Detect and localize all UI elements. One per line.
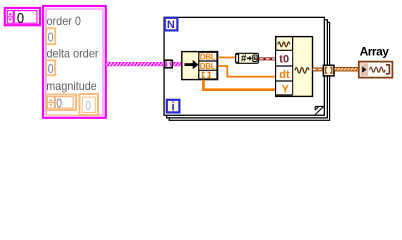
output waveform glyph bbox=[295, 68, 309, 73]
bracket glyph bbox=[236, 54, 238, 62]
cluster constant frame bbox=[43, 6, 106, 118]
svg-text:N: N bbox=[167, 19, 175, 31]
waveform glyph bbox=[370, 67, 386, 72]
wire: time stamp (dark red dashed) bbox=[258, 57, 276, 60]
svg-text:#: # bbox=[241, 53, 247, 64]
array of waveform indicator terminal bbox=[359, 62, 393, 78]
magnitude array element box (dimmed) bbox=[80, 94, 99, 115]
increment-decrement buttons bbox=[7, 11, 13, 24]
svg-text:0: 0 bbox=[48, 30, 54, 45]
wire: cluster wire (magenta striped) bbox=[106, 62, 182, 66]
numeric control terminal (unwired) bbox=[5, 8, 40, 27]
array index strip with arrow bbox=[361, 63, 369, 76]
output pin array (magnitude) bbox=[203, 72, 205, 77]
loop count terminal N bbox=[165, 18, 178, 31]
numeric constant delta order value bbox=[46, 60, 55, 76]
svg-text:i: i bbox=[172, 102, 175, 114]
wire: magnitude array to Y bbox=[203, 80, 275, 90]
svg-text:DBL: DBL bbox=[200, 53, 216, 62]
wire: waveform array (striped) bbox=[335, 67, 359, 71]
for-loop folded corner bbox=[315, 106, 323, 114]
svg-text:t0: t0 bbox=[279, 54, 289, 66]
svg-text:0: 0 bbox=[85, 98, 91, 113]
svg-text:0: 0 bbox=[56, 95, 62, 110]
wire: order DBL to To Time Stamp bbox=[218, 57, 236, 59]
numeric constant order value bbox=[46, 28, 55, 44]
svg-text:Y: Y bbox=[282, 84, 290, 96]
svg-text:0: 0 bbox=[17, 11, 24, 27]
clock glyph bbox=[253, 55, 257, 62]
to-time-stamp conversion node bbox=[236, 53, 259, 64]
waveform glyph (top cell) bbox=[278, 42, 290, 47]
svg-text:0: 0 bbox=[48, 61, 54, 76]
unbundle function bbox=[182, 52, 218, 80]
build waveform function bbox=[276, 37, 313, 97]
wire: delta order DBL to dt bbox=[218, 66, 276, 77]
svg-text:magnitude: magnitude bbox=[46, 79, 97, 93]
output tunnel (auto-indexing) bbox=[323, 65, 334, 76]
numeric control text field bbox=[14, 11, 37, 24]
for-loop N frame back layer 3 bbox=[169, 22, 329, 120]
iteration terminal i bbox=[167, 100, 180, 114]
arrow glyph bbox=[247, 58, 250, 60]
svg-text:dt: dt bbox=[279, 69, 290, 81]
magnitude array index box bbox=[46, 95, 76, 111]
svg-text:delta order: delta order bbox=[47, 46, 99, 60]
for-loop N frame back layer 2 bbox=[167, 20, 328, 118]
svg-text:DBL: DBL bbox=[200, 62, 216, 71]
input tunnel bbox=[165, 60, 173, 68]
svg-text:Array: Array bbox=[360, 44, 390, 58]
closing bracket glyph bbox=[386, 64, 389, 74]
for-loop main frame bbox=[164, 17, 324, 115]
magnitude array control shell bbox=[47, 95, 97, 115]
svg-text:order 0: order 0 bbox=[47, 14, 82, 28]
unbundle arrow glyph bbox=[185, 63, 194, 66]
wire: waveform out (brown-orange dashed) bbox=[313, 68, 325, 72]
